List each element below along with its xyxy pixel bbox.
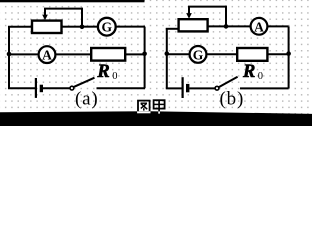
svg-text:0: 0	[258, 71, 263, 82]
svg-text:0: 0	[112, 71, 117, 82]
wire: right vertical of loop (b)	[288, 26, 290, 88]
resistor R0 (b): box	[237, 48, 267, 61]
svg-text:R: R	[96, 62, 109, 82]
galvanometer G (b)	[190, 46, 207, 63]
bottom black bar	[0, 111, 312, 126]
svg-text:A: A	[42, 48, 52, 63]
wire: top branch (b)	[206, 25, 289, 27]
ammeter A (a)	[39, 46, 56, 63]
wire: left vertical of loop (a)	[8, 27, 10, 89]
svg-text:(a): (a)	[75, 89, 99, 110]
ammeter A (b)	[251, 18, 268, 35]
wire: wiper drop to node (a)	[81, 8, 83, 27]
switch S (a)	[70, 78, 145, 90]
wire: wiper top link (b)	[188, 6, 226, 8]
top black bar	[0, 0, 145, 2]
resistor R0 (a): box	[91, 48, 125, 61]
rheostat R (b): body	[179, 19, 208, 31]
rheostat R (a): wiper arrow	[42, 9, 48, 21]
junction node: right wire / middle branch (b)	[286, 51, 291, 56]
rheostat R (a): body	[32, 21, 62, 33]
junction node: left wire / middle branch (b)	[165, 51, 170, 56]
junction node: right wire / middle branch (a)	[142, 52, 147, 57]
battery cell (b)	[183, 77, 216, 98]
wire: left vertical of loop (b)	[166, 28, 168, 88]
wire: top branch (a)	[8, 26, 145, 28]
wire: bottom branch left segment (b)	[166, 87, 182, 89]
wire: wiper drop to node (b)	[225, 6, 227, 27]
value label R0 (b)	[242, 62, 263, 82]
caption character 甲	[154, 100, 165, 113]
junction node: left wire / middle branch (a)	[7, 52, 12, 57]
caption knockout over bar	[138, 100, 159, 113]
wire: right vertical of loop (a)	[144, 27, 146, 89]
svg-text:A: A	[254, 19, 264, 34]
svg-text:(b): (b)	[220, 89, 245, 110]
svg-text:G: G	[102, 20, 113, 35]
svg-text:R: R	[242, 62, 255, 82]
wire: left stub to rheostat (b)	[166, 28, 180, 30]
wire: middle branch (b)	[167, 53, 289, 55]
battery cell (a)	[36, 78, 70, 98]
wire: middle branch (a)	[9, 53, 145, 55]
wire: wiper top link (a)	[44, 8, 82, 10]
caption character 图	[138, 101, 150, 113]
switch S (b)	[215, 77, 289, 90]
rheostat R (b): wiper arrow	[186, 7, 192, 19]
svg-text:G: G	[193, 47, 204, 62]
value label R0 (a)	[96, 62, 117, 82]
galvanometer G (a)	[98, 18, 116, 36]
junction node: wiper/top wire (b)	[224, 24, 229, 29]
junction node: wiper/top wire (a)	[80, 25, 85, 30]
wire: bottom branch left segment (a)	[8, 87, 35, 89]
